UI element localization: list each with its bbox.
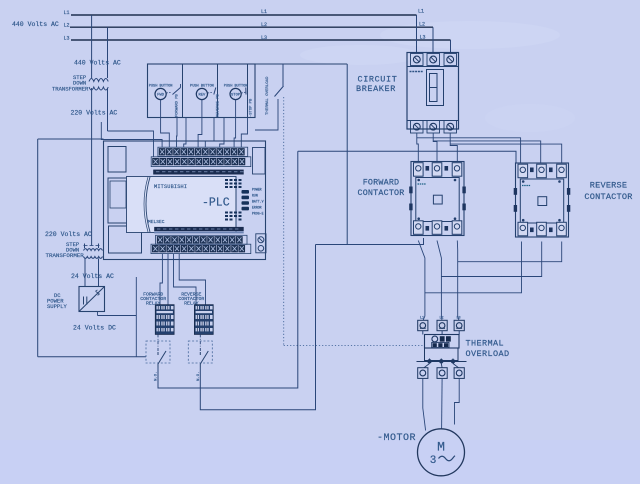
wire forward T2 down to overload L2 [437,241,442,321]
wire breaker T2 to forward contactor L2 [433,133,437,162]
PLC body curve [146,177,150,232]
wire overload T3 stem [458,331,460,335]
svg-text:TRANSFORMER: TRANSFORMER [46,252,85,259]
wire overload T2 stem [441,331,443,335]
contact KA2 N.O. [200,351,208,368]
push button PB1 forward [149,84,181,117]
PLC bottom-right accessory module [256,234,266,253]
wire output 3 to relay KA2 [174,254,197,305]
wire relay KA1 to contact (dash-dot) [157,334,159,352]
wire PB1 stem [160,100,162,118]
svg-text:TRANSFORMER: TRANSFORMER [52,86,89,93]
overload bottom terminal 2 [437,368,447,379]
svg-text:-MOTOR: -MOTOR [377,433,416,444]
svg-text:MELSEC: MELSEC [148,219,165,225]
PLC IN LED dot cluster [225,179,242,188]
contact KA1 N.O. [158,351,166,368]
svg-text:220 Volts AC: 220 Volts AC [71,110,118,117]
wire L1 bus [71,14,417,16]
thermal aux section enclosure [255,99,278,130]
PLC status LED labels [252,188,264,216]
svg-text:220 Volts AC: 220 Volts AC [45,231,92,238]
svg-text:ERROR: ERROR [252,206,262,210]
wire coil feed to reverse contactor [298,151,516,163]
wire L1 drop to breaker [416,15,418,53]
wire enclosure left vertical [37,139,39,357]
wire reverse T1 crossover [425,242,522,293]
push button box divider 3 [247,64,249,118]
contact KA2 N.O. dashed outline [188,341,212,363]
wire output 2 to relay KA1 [167,254,169,305]
wire breaker T3 to forward contactor L3 [450,133,457,162]
wire contact KA1 to forward coil riser [158,151,298,388]
svg-text:POWER: POWER [252,188,262,192]
transformer T1 [89,79,108,91]
thermal overload auxiliary contact [266,64,284,115]
wire PB2 stem [201,100,203,118]
wire DC bus down to common [135,316,137,357]
breaker bottom terminal 1 [411,121,424,134]
wire from extension down to forward coil line [346,64,348,245]
wire enclosure bottom horizontal to contact KA1 [38,356,146,358]
breaker top terminal 3 [444,54,457,66]
svg-text:L3: L3 [420,35,426,41]
circuit breaker CB1 [407,53,459,134]
breaker bottom band [407,120,459,122]
wire DC supply output across [98,315,137,317]
wire output 1 to relay KA1 [160,254,162,305]
label REVERSE CONTACTOR RELAY [178,291,204,306]
wire L3 drop to breaker [450,40,452,53]
svg-text:L3: L3 [64,35,70,41]
dotted wire across to thermal overload block [284,344,424,346]
svg-text:-PLC: -PLC [202,197,230,210]
svg-text:FORWARD: FORWARD [363,178,400,188]
PLC bottom terminal strip row 1 [156,235,248,244]
svg-text:REVERSE: REVERSE [590,181,628,191]
overload bottom terminal 1 [418,368,428,379]
wire DC bus to relay area [135,277,137,316]
motor M1 [418,429,465,476]
svg-text:MITSUBISHI: MITSUBISHI [154,184,187,190]
PLC top terminal strip row 2 [151,157,251,167]
wire reverse T3 crossover [458,242,562,262]
svg-text:L3: L3 [261,35,267,41]
overload OL1 body [425,335,460,349]
dotted wire from thermal aux contact down [283,97,285,345]
svg-text:THERMAL: THERMAL [466,339,505,349]
svg-text:440 Volts AC: 440 Volts AC [12,21,59,28]
relay KA2 (reverse) [194,305,213,335]
faint scan ghost haze [300,21,575,132]
svg-text:REVERSE PB: REVERSE PB [217,93,221,117]
overload top terminal 2 [437,320,447,330]
breaker handle [427,70,444,106]
push button box divider 1 [182,64,184,118]
PLC status LED bars [242,190,250,210]
subtle lighter wash at bottom [0,440,640,484]
PLC body [127,177,237,233]
label FORWARD CONTACTOR RELAY [140,291,166,306]
breaker nameplate text [410,71,424,73]
push button PB2 reverse [190,85,220,118]
svg-text:PROG-E: PROG-E [252,212,264,216]
overload bottom studs [417,359,467,368]
wire PB1 to input 3 [161,118,170,148]
svg-text:L1: L1 [418,9,424,15]
wire breaker T1 to forward contactor L1 [417,133,419,162]
wire coil line to forward contactor [316,238,424,245]
wire T2 secondary left to DC supply [84,259,86,287]
svg-text:24 Volts DC: 24 Volts DC [73,325,116,332]
svg-text:BATT.V: BATT.V [252,200,264,204]
wire forward T3 down to overload L3 [457,241,459,321]
push button enclosure box [148,64,256,118]
svg-text:L1: L1 [261,9,267,15]
svg-text:FORWARD PB: FORWARD PB [176,93,180,117]
push button enclosure top extension [255,63,347,65]
PLC right section divider [235,177,237,233]
svg-text:24 Volts AC: 24 Volts AC [71,273,114,280]
PLC left module inner rect [110,181,126,208]
wire L1 drop to T1 primary [91,15,93,78]
overload top terminal 3 [454,320,464,330]
breaker bottom terminal 2 [427,121,440,134]
wire L2 drop to T1 primary [107,27,109,78]
breaker top terminal 2 [427,54,440,66]
wire 220V neutral to input 2 [101,122,162,147]
svg-text:3: 3 [430,455,437,467]
wire L3 bus [71,39,451,41]
wire T2 secondary right to DC supply [98,259,100,287]
overload bottom terminal 3 [454,368,464,379]
breaker bottom terminal 3 [444,121,457,134]
PLC top-right end cap [253,148,266,175]
wire T1 secondary left down [91,88,93,246]
svg-text:REV: REV [198,94,206,98]
transformer T2 [84,244,103,259]
overload top terminal 1 [418,320,428,330]
svg-text:THERMAL OVERLOAD: THERMAL OVERLOAD [266,76,270,115]
svg-text:CONTACTOR: CONTACTOR [357,188,404,198]
wire L2 drop to breaker [432,27,434,52]
wire PB3 stem [235,100,237,118]
wire DC supply output down [97,312,99,316]
wire relay KA2 to contact (dash-dot) [199,334,201,352]
wire reverse T2 crossover [441,242,541,277]
PLC left module middle rect [108,178,140,223]
PLC left module lower rect [109,226,142,253]
wire 220V phase to input 1 [108,131,154,157]
wire PB3 to input 9 [234,118,236,148]
wire breaker T2 to reverse contactor L2 [433,141,541,163]
PLC bottom terminal strip row 2 [151,244,251,253]
svg-text:CIRCUIT: CIRCUIT [358,75,398,85]
svg-text:L1: L1 [64,10,70,16]
wire breaker T1 to reverse contactor L1 [417,138,521,163]
svg-text:L2: L2 [261,22,267,28]
PLC bottom label bar [154,227,244,231]
wire forward T1 down to overload L1 [418,241,425,321]
wire overload T2 to motor [441,378,444,429]
wire output 4 to relay KA2 [179,254,205,305]
svg-text:STOP: STOP [231,94,241,98]
wire T1 secondary right down [107,88,109,131]
relay KA1 (forward) [155,305,174,335]
wire overload T1 to motor [423,378,426,430]
svg-text:OVERLOAD: OVERLOAD [466,349,510,359]
overload lower body [425,348,459,361]
svg-text:RUN: RUN [252,194,258,198]
wire overload T1 stem [422,331,424,335]
svg-text:M: M [437,440,445,455]
wire input jumper a [184,118,186,148]
wire enclosure top horizontal [38,138,104,140]
svg-text:L2: L2 [64,23,70,29]
PLC top terminal strip row 1 [158,147,248,156]
push button PB3 stop [224,85,254,118]
contact KA1 N.O. dashed outline [146,341,170,363]
wire PB3b to input 10 [241,118,247,148]
wire PB2 to input 6 [198,118,202,148]
wire L2 bus [70,26,433,28]
svg-text:CONTACTOR: CONTACTOR [584,192,632,202]
PLC left module upper rect [108,147,126,173]
wire overload T3 to motor [455,378,460,424]
svg-text:L2: L2 [419,22,425,28]
PLC outer box [104,141,266,260]
PLC OUT LED dot cluster [225,212,242,221]
PLC top label bar [153,170,244,175]
svg-text:L1: L1 [420,317,424,321]
svg-text:-STOP PB: -STOP PB [250,98,254,117]
svg-text:SUPPLY: SUPPLY [47,303,68,310]
wire input jumper b [220,118,224,148]
svg-text:FWD: FWD [157,94,165,98]
wire contact KA2 to reverse coil riser [200,245,315,410]
wire PB2b to input 7 [205,118,214,148]
wire PB1b to input 4 [176,118,179,148]
contactor K1 (forward) [409,162,466,236]
contactor K2 (reverse) [514,163,571,237]
breaker top terminal 1 [411,54,424,66]
svg-text:L3: L3 [457,317,461,321]
wire breaker T3 to reverse contactor L3 [450,144,562,163]
motor tilde [439,456,456,461]
svg-text:440 Volts AC: 440 Volts AC [74,60,121,67]
push button box divider 2 [217,64,219,118]
DC power supply U1 [79,287,105,312]
svg-text:L2: L2 [440,317,444,321]
svg-text:BREAKER: BREAKER [356,84,396,94]
